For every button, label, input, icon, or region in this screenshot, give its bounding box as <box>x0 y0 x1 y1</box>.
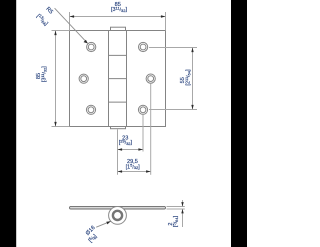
right dim extension line bottom <box>149 109 197 111</box>
dim line 29,5 <box>118 171 151 173</box>
dim 29,5 arrow right <box>146 170 151 172</box>
top dim extension line left <box>69 12 71 31</box>
barrel knuckle ring <box>113 211 122 220</box>
dim 29,5 extension line from middle-right hole <box>150 84 152 175</box>
dim 2 extension line bottom <box>167 208 185 210</box>
dim 2 extension line top <box>167 206 185 208</box>
dim 2 line bottom tail <box>182 209 184 227</box>
pin tip top <box>111 27 126 30</box>
dim 23 extension line from bottom-right hole <box>142 115 144 152</box>
svg-text:[211/64]: [211/64] <box>184 69 192 85</box>
knuckle right edge <box>126 31 128 127</box>
hole bottom-left <box>86 105 95 114</box>
dim 2 line top tail <box>182 200 184 207</box>
dim 23 extension line from pin axis <box>117 129 119 174</box>
dia16 leader line <box>96 221 111 227</box>
left dim arrow bottom <box>54 122 56 127</box>
right dim extension line top <box>149 47 197 49</box>
right dim arrow bottom <box>191 105 193 110</box>
hole bottom-right <box>138 105 147 114</box>
pin tip bottom <box>111 127 126 129</box>
dim 2 arrow bottom <box>181 209 183 213</box>
left dim extension line top <box>52 30 70 32</box>
left dim extension line bottom <box>52 126 70 128</box>
left dim line 85 <box>55 31 57 127</box>
black stripe left <box>0 0 16 247</box>
side view leaf bar (capsule) <box>70 206 166 209</box>
right dim arrow top <box>191 48 193 53</box>
hole top-right <box>139 42 148 51</box>
top dim line 85 <box>70 16 166 18</box>
dim 23 arrow right <box>138 148 143 150</box>
knuckle division line 1 <box>109 54 127 56</box>
hole middle-left <box>79 74 88 83</box>
hole middle-right <box>146 74 155 83</box>
top dim arrow left <box>70 15 75 17</box>
svg-text:[311/32]: [311/32] <box>40 66 48 82</box>
R5 leader arrowhead <box>84 40 88 44</box>
top dim arrow right <box>161 15 166 17</box>
hole top-left <box>87 42 96 51</box>
top dim extension line right <box>165 12 167 31</box>
R5 leader line <box>55 8 88 43</box>
dia16 leader arrowhead <box>106 221 110 224</box>
knuckle division line 3 <box>109 101 127 103</box>
hinge plate outline <box>70 31 166 127</box>
knuckle left edge <box>108 31 110 127</box>
dim 23 arrow left <box>118 148 123 150</box>
barrel outer circle <box>109 207 127 225</box>
dim 2 arrow top <box>181 202 183 206</box>
right dim line 55 <box>192 48 194 110</box>
svg-text:[311/32]: [311/32] <box>111 5 127 13</box>
dim line 23 <box>118 149 144 151</box>
black stripe right <box>231 0 247 247</box>
dim 29,5 arrow left <box>118 170 123 172</box>
left dim arrow top <box>54 31 56 36</box>
knuckle division line 2 <box>109 78 127 80</box>
